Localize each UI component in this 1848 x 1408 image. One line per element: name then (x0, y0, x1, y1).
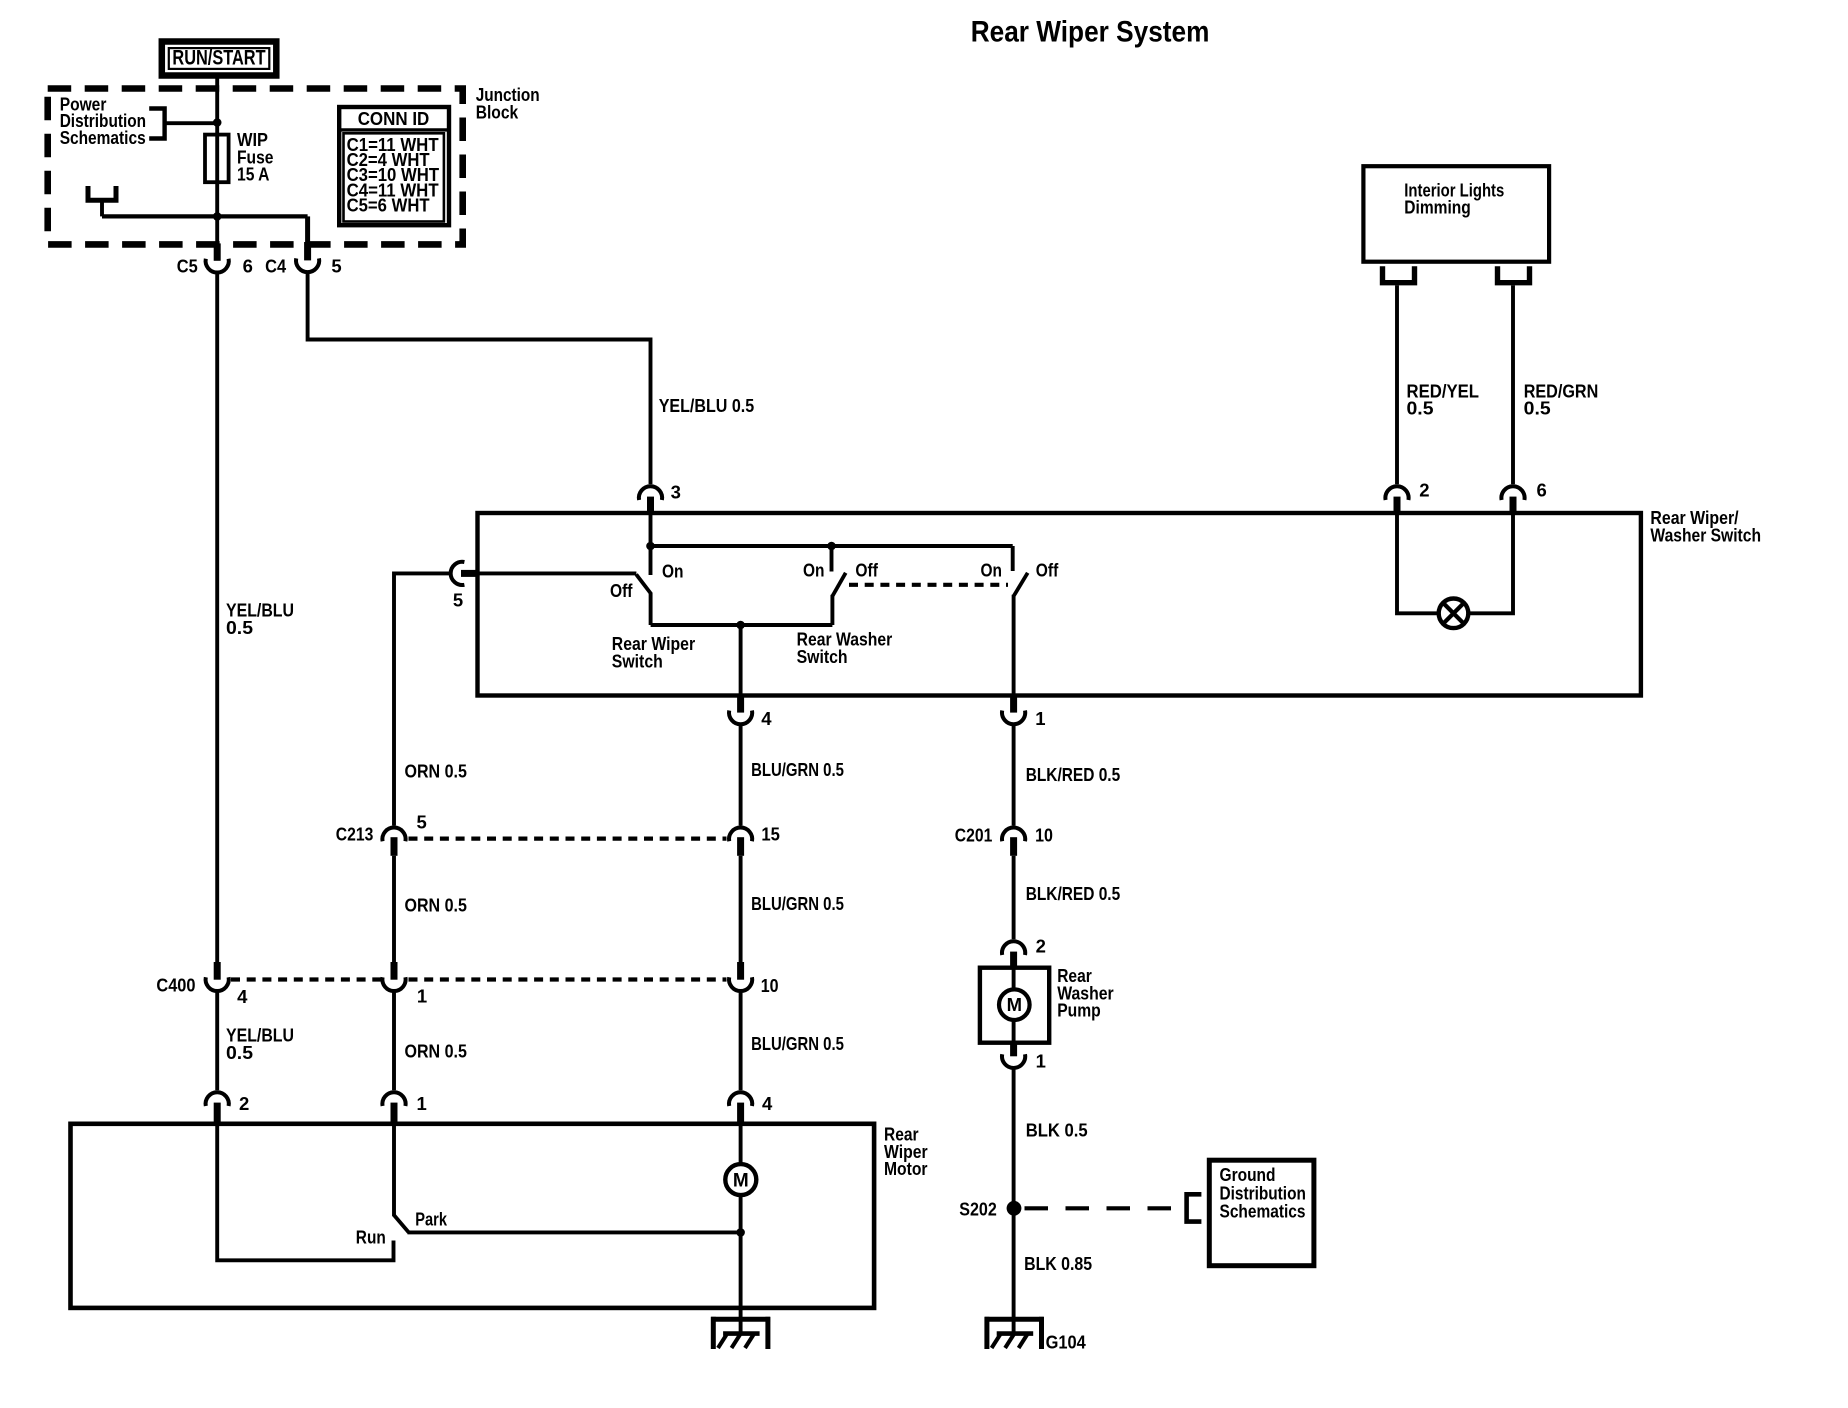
connector pin 6 switch top (1501, 486, 1524, 513)
svg-text:1: 1 (417, 985, 427, 1006)
junction block dashed border (48, 89, 463, 245)
svg-text:2: 2 (1419, 480, 1429, 501)
wire third switch pole (1012, 595, 1016, 696)
mechanical link dashed (849, 583, 1008, 587)
svg-text:ORN 0.5: ORN 0.5 (405, 895, 467, 916)
wire internal bus to C4 drop (102, 214, 308, 218)
svg-text:M: M (1007, 994, 1022, 1015)
svg-text:BLU/GRN 0.5: BLU/GRN 0.5 (751, 759, 844, 780)
svg-text:RUN/START: RUN/START (172, 46, 265, 70)
svg-text:15: 15 (761, 823, 780, 844)
connector C5 labels (177, 256, 253, 277)
interior lights dimming label (1404, 179, 1504, 217)
internal connector cup symbol (88, 186, 116, 200)
svg-text:Motor: Motor (884, 1158, 928, 1179)
dashed connector row C213 (409, 836, 727, 840)
svg-text:Block: Block (476, 101, 519, 122)
svg-text:BLK/RED 0.5: BLK/RED 0.5 (1026, 883, 1121, 904)
node junction of feed and fuse (213, 118, 222, 127)
svg-text:0.5: 0.5 (1407, 398, 1434, 419)
svg-text:6: 6 (243, 256, 253, 277)
svg-text:BLU/GRN 0.5: BLU/GRN 0.5 (751, 1033, 844, 1054)
rear wiper switch label (612, 633, 695, 671)
wire On bus (651, 544, 1013, 548)
wire C213 to conn1 ORN (392, 856, 396, 962)
label YEL/BLU 0.5 lower (226, 1025, 294, 1064)
svg-text:3: 3 (671, 481, 681, 502)
wire run contact loop (217, 1124, 393, 1261)
connector motor pin 2 (206, 1092, 229, 1124)
wire main feed to C5 (215, 218, 219, 246)
wire conn10 to motor pin4 (739, 992, 743, 1090)
svg-text:M: M (733, 1170, 749, 1191)
svg-text:4: 4 (237, 986, 248, 1007)
wire switch output bus (651, 623, 833, 627)
connector 10 C400 row (729, 962, 752, 991)
connector C5 pin 6 (206, 243, 229, 272)
rear washer pump label (1057, 965, 1114, 1021)
rear wiper/washer switch box (478, 513, 1641, 696)
svg-text:BLU/GRN 0.5: BLU/GRN 0.5 (751, 893, 844, 914)
svg-text:ORN 0.5: ORN 0.5 (405, 1041, 467, 1062)
power distribution schematics tap bracket (149, 109, 164, 139)
svg-text:CONN ID: CONN ID (358, 108, 430, 129)
wire bus corner to third switch On (1011, 546, 1015, 571)
svg-text:1: 1 (417, 1093, 427, 1114)
connector C201 pin 10 (1002, 828, 1025, 856)
fuse WIP 15A label (237, 129, 274, 185)
svg-text:On: On (662, 561, 684, 582)
wire output down to pin4 (739, 625, 743, 696)
dashed connector row C400 right (409, 977, 727, 981)
connector pin 4 (729, 696, 752, 725)
power distribution schematics label (60, 93, 146, 147)
svg-text:Off: Off (1036, 559, 1059, 580)
ILD right terminal tab (1498, 266, 1530, 283)
wire conn1 to motor pin1 (392, 992, 396, 1090)
ground distribution schematics label (1220, 1164, 1306, 1221)
wire C4 to switch pin3 YEL/BLU (308, 272, 651, 484)
wire park to motor (408, 1230, 741, 1234)
svg-text:0.5: 0.5 (226, 1042, 253, 1063)
label RED/YEL 0.5 (1407, 380, 1480, 418)
svg-text:6: 6 (1537, 480, 1547, 501)
svg-text:Washer Switch: Washer Switch (1650, 525, 1761, 546)
connector 1 C400 row (382, 962, 405, 991)
svg-text:BLK 0.85: BLK 0.85 (1024, 1253, 1092, 1274)
connector pin 3 (639, 486, 662, 513)
dashed S202 reference (1025, 1206, 1173, 1210)
wire pin1 to C201 BLK/RED (1012, 725, 1016, 825)
fuse WIP 15A (205, 135, 229, 218)
connector 15 C213 row (729, 828, 752, 856)
wire wiper switch pole (649, 593, 653, 626)
wire park pole (392, 1124, 396, 1217)
svg-text:Schematics: Schematics (1220, 1201, 1306, 1222)
svg-text:C5: C5 (177, 256, 198, 277)
svg-text:5: 5 (331, 256, 341, 277)
svg-text:Pump: Pump (1057, 1000, 1101, 1021)
svg-text:10: 10 (1035, 825, 1053, 846)
wire pump motor to pin1 (1012, 1020, 1016, 1043)
svg-text:Dimming: Dimming (1404, 197, 1471, 218)
connector C4 labels (265, 256, 342, 277)
node output to pin4 (736, 621, 745, 630)
wire washer switch pole (830, 595, 834, 625)
svg-text:5: 5 (417, 812, 427, 833)
wire bracket to main feed (165, 121, 218, 125)
wire C5 to C400 YEL/BLU (215, 273, 219, 962)
svg-text:S202: S202 (959, 1199, 997, 1220)
ground distribution bracket (1187, 1194, 1202, 1221)
svg-text:2: 2 (239, 1093, 249, 1114)
svg-text:1: 1 (1035, 708, 1045, 729)
svg-text:C5=6 WHT: C5=6 WHT (347, 194, 431, 215)
connector pump pin 1 (1002, 1043, 1025, 1068)
label YEL/BLU 0.5 upper (226, 600, 294, 639)
third switch blade (1014, 573, 1028, 596)
svg-text:C400: C400 (156, 975, 195, 996)
svg-text:On: On (803, 559, 825, 580)
connector C213 pin 5 (382, 828, 405, 856)
wire cup to bus (100, 200, 104, 216)
node park junction (736, 1228, 745, 1237)
svg-text:0.5: 0.5 (226, 617, 253, 638)
wire wiper switch input (478, 571, 637, 575)
svg-text:Schematics: Schematics (60, 127, 146, 148)
ground G104 (985, 1317, 1044, 1349)
connector pump pin 2 (1002, 941, 1025, 968)
label RED/GRN 0.5 (1524, 380, 1599, 418)
connector C4 pin 5 (296, 242, 319, 272)
svg-text:Rear Wiper System: Rear Wiper System (971, 16, 1210, 49)
ground under motor (711, 1317, 770, 1349)
wire motor pin4 to M (739, 1124, 743, 1165)
svg-text:BLK 0.5: BLK 0.5 (1026, 1120, 1088, 1141)
rear wiper/washer switch label (1650, 507, 1761, 546)
wire pin3 into switch (649, 513, 653, 575)
wiper motor M (725, 1164, 756, 1195)
connector pin 1 (1002, 696, 1025, 725)
rear wiper switch blade (636, 574, 651, 593)
wire S202 to G104 BLK (1012, 1208, 1016, 1333)
junction block label (476, 84, 540, 122)
wire RUN/START to WIP fuse (215, 76, 219, 136)
wire C400 to motor pin2 (215, 992, 219, 1090)
svg-text:Off: Off (855, 559, 878, 580)
svg-text:Switch: Switch (612, 650, 663, 671)
connector pin 2 switch top (1385, 486, 1408, 513)
lamp illumination (1439, 599, 1469, 629)
ground distribution schematics box (1209, 1160, 1314, 1266)
wire ILD to pin2 RED/YEL (1395, 285, 1399, 484)
interior lights dimming box (1363, 166, 1549, 262)
rear washer switch label (797, 629, 893, 667)
rear washer switch blade (833, 573, 846, 596)
connector pin 5 (451, 562, 478, 585)
dashed connector row C400 left (231, 977, 381, 981)
node On bus tap (646, 542, 655, 551)
svg-text:YEL/BLU 0.5: YEL/BLU 0.5 (659, 395, 755, 416)
svg-text:4: 4 (762, 1093, 773, 1114)
svg-text:Off: Off (610, 580, 633, 601)
wire pin5 feed (394, 573, 450, 825)
CONN ID table (339, 107, 449, 225)
svg-text:Park: Park (415, 1209, 447, 1230)
CONN ID rows (347, 134, 440, 215)
svg-text:C4: C4 (265, 256, 287, 277)
svg-text:15 A: 15 A (237, 164, 270, 185)
wire conn15 to conn10 (739, 856, 743, 962)
svg-text:5: 5 (453, 590, 463, 611)
wire bus drop to C4 (305, 216, 310, 244)
svg-text:Switch: Switch (797, 646, 848, 667)
park switch blade (394, 1215, 409, 1232)
node washer On stub (827, 542, 836, 551)
svg-text:ORN 0.5: ORN 0.5 (405, 761, 467, 782)
svg-text:BLK/RED 0.5: BLK/RED 0.5 (1026, 764, 1121, 785)
wire ILD to pin6 RED/GRN (1511, 285, 1515, 484)
node fuse output junction (213, 212, 222, 221)
wire pump to S202 BLK (1012, 1069, 1016, 1209)
wire pump feed to motor (1012, 968, 1016, 991)
svg-text:4: 4 (761, 708, 772, 729)
svg-text:1: 1 (1036, 1051, 1046, 1072)
svg-text:C201: C201 (955, 825, 993, 846)
svg-text:0.5: 0.5 (1524, 398, 1551, 419)
rear wiper motor box (71, 1124, 875, 1308)
wire pin4 to conn15 BLU/GRN (739, 725, 743, 825)
wire lamp left branch (1397, 513, 1437, 613)
svg-text:2: 2 (1036, 936, 1046, 957)
svg-text:On: On (981, 559, 1003, 580)
svg-text:Run: Run (356, 1227, 386, 1248)
wire M to ground (739, 1195, 743, 1334)
ILD left terminal tab (1383, 266, 1415, 283)
svg-text:C213: C213 (336, 824, 374, 845)
wire C201 to pump pin2 (1012, 856, 1016, 939)
connector motor pin 1 (382, 1092, 405, 1124)
connector C400 pin 4 (206, 962, 229, 991)
power source RUN/START box (162, 42, 276, 76)
svg-text:10: 10 (761, 975, 779, 996)
svg-text:G104: G104 (1046, 1332, 1087, 1353)
wire lamp right branch (1470, 513, 1513, 613)
rear wiper motor label (884, 1124, 928, 1180)
splice S202 (1007, 1201, 1022, 1216)
rear washer pump box (980, 968, 1049, 1043)
wire washer On stub (830, 546, 834, 572)
pump motor M (999, 989, 1030, 1020)
connector motor pin 4 (729, 1092, 752, 1124)
